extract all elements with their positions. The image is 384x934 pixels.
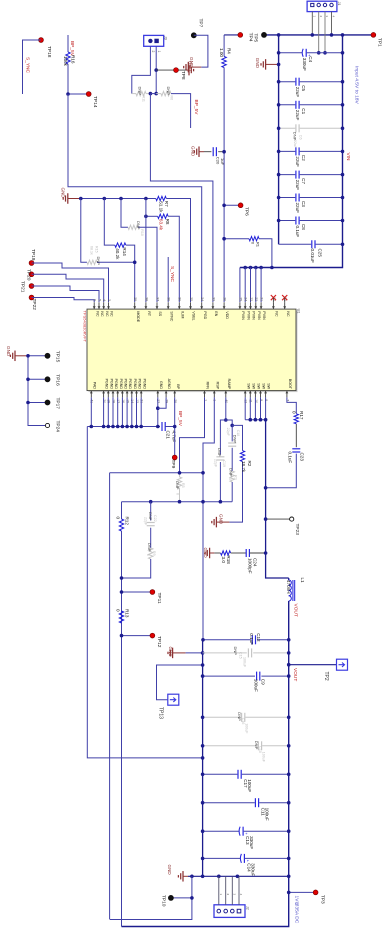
svg-text:100uF: 100uF xyxy=(261,752,265,763)
svg-text:100k: 100k xyxy=(63,56,68,67)
wire VIN top line xyxy=(224,34,240,36)
capacitor C6 xyxy=(279,127,296,129)
test point TP24 xyxy=(45,423,49,427)
resistor R13 xyxy=(119,611,123,623)
svg-text:1: 1 xyxy=(157,51,161,53)
svg-text:0.1uF: 0.1uF xyxy=(287,452,292,464)
wire BOOT pin xyxy=(287,397,296,413)
svg-text:C3: C3 xyxy=(301,201,306,207)
wire PGND 20 to bus xyxy=(103,397,105,426)
svg-text:U1: U1 xyxy=(297,309,301,314)
svg-text:MODE: MODE xyxy=(136,311,140,322)
svg-text:RT: RT xyxy=(147,311,151,317)
svg-text:TP21: TP21 xyxy=(20,281,26,293)
svg-text:0.01uF: 0.01uF xyxy=(310,249,315,263)
capacitor C13 xyxy=(203,830,240,832)
svg-text:1: 1 xyxy=(313,16,317,18)
test point TP5 (red) xyxy=(238,33,243,38)
svg-text:330uF: 330uF xyxy=(250,863,255,876)
svg-text:4: 4 xyxy=(239,894,243,896)
svg-text:21: 21 xyxy=(260,297,264,301)
svg-text:VDD: VDD xyxy=(225,311,229,319)
pin 33 EN xyxy=(212,302,214,309)
svg-text:0: 0 xyxy=(175,493,179,495)
pin 32 NC xyxy=(272,302,274,309)
capacitor C22 (DNP) xyxy=(150,502,152,521)
pin 15 PGND xyxy=(126,391,128,398)
pin 12 SW xyxy=(244,391,246,398)
svg-text:TP3: TP3 xyxy=(319,895,325,904)
ground (TP15 group) xyxy=(15,355,28,357)
pin 11 SW xyxy=(249,391,251,398)
svg-text:100uF: 100uF xyxy=(247,779,252,792)
svg-text:VIN: VIN xyxy=(345,153,351,162)
capacitor C21 xyxy=(161,422,163,431)
svg-text:GND: GND xyxy=(168,647,173,658)
svg-text:23: 23 xyxy=(249,297,253,301)
svg-text:C2: C2 xyxy=(301,155,306,161)
capacitor C14 xyxy=(203,857,241,859)
svg-text:R14: R14 xyxy=(122,247,127,256)
svg-text:330uF: 330uF xyxy=(302,58,307,71)
svg-text:TP20: TP20 xyxy=(26,269,32,281)
svg-text:GND: GND xyxy=(6,346,11,357)
resistor R17 xyxy=(294,414,298,424)
capacitor C18 (DNP) xyxy=(231,425,233,441)
capacitor C20 xyxy=(199,151,204,153)
resistor R2 xyxy=(232,425,242,450)
pin 20 PGND xyxy=(103,391,105,398)
svg-text:C1: C1 xyxy=(301,108,306,114)
svg-text:R8: R8 xyxy=(165,219,170,225)
svg-text:C7: C7 xyxy=(301,178,306,184)
test point TP23 xyxy=(266,518,290,520)
capacitor C11 xyxy=(203,802,255,804)
svg-text:1uF: 1uF xyxy=(220,158,225,165)
svg-text:0: 0 xyxy=(115,517,120,520)
pin 4 NC xyxy=(103,302,105,309)
wire J2 pin 1 xyxy=(218,876,220,905)
svg-text:DNP: DNP xyxy=(233,435,238,444)
pin 13 PGND xyxy=(136,391,138,398)
pin 10 SW xyxy=(254,391,256,398)
capacitor C17 xyxy=(203,773,238,775)
svg-text:SYNC: SYNC xyxy=(169,311,173,321)
svg-text:NC: NC xyxy=(275,311,279,317)
svg-text:TP16: TP16 xyxy=(54,374,60,386)
svg-text:0: 0 xyxy=(228,478,232,480)
wire PGND 18 to bus xyxy=(112,397,114,426)
svg-text:DNP: DNP xyxy=(175,481,180,490)
svg-text:TP19: TP19 xyxy=(30,249,36,261)
wire J1 pin1 xyxy=(311,12,313,35)
wire PGND bus xyxy=(87,426,160,428)
pin 5 NC xyxy=(98,302,100,309)
wire PGND 13 to bus xyxy=(136,397,138,426)
ground (R2) xyxy=(216,521,229,523)
svg-text:PGND: PGND xyxy=(133,379,137,390)
svg-text:30: 30 xyxy=(178,297,182,301)
svg-text:C22: C22 xyxy=(153,515,157,522)
svg-text:0: 0 xyxy=(292,411,297,414)
ground (TP8) xyxy=(186,69,189,71)
svg-text:SW: SW xyxy=(262,383,266,389)
test point TP19 xyxy=(29,261,34,266)
pin 26 VDD xyxy=(223,302,225,309)
svg-text:22uF: 22uF xyxy=(295,203,300,214)
wire VOUT bus xyxy=(122,601,289,927)
svg-text:R11: R11 xyxy=(142,96,146,102)
pin 40 RAMP xyxy=(225,391,227,398)
svg-text:TP15: TP15 xyxy=(54,351,60,363)
test point TP18 xyxy=(39,38,44,43)
resistor R9 (DNP) xyxy=(149,548,153,559)
wire J2 pin 3 xyxy=(231,876,233,905)
pin 24 PVIN xyxy=(244,302,246,309)
test point TP12 xyxy=(122,635,153,637)
svg-text:25: 25 xyxy=(238,297,242,301)
svg-text:PAD: PAD xyxy=(92,382,96,390)
pin 28 BP xyxy=(174,391,176,398)
pin 35 VSEL xyxy=(190,302,192,309)
svg-text:TP14: TP14 xyxy=(92,96,98,108)
svg-text:TP2: TP2 xyxy=(323,672,329,681)
resistor R8 xyxy=(146,215,158,217)
svg-text:TP8: TP8 xyxy=(180,71,186,80)
svg-text:22pF: 22pF xyxy=(214,459,218,468)
svg-text:22pF: 22pF xyxy=(226,428,230,437)
capacitor C8 xyxy=(279,220,296,222)
no-connect X pin 32 xyxy=(271,295,276,300)
test point TP15 xyxy=(28,355,48,357)
svg-text:VOUT: VOUT xyxy=(292,604,298,617)
capacitor C9 xyxy=(203,675,255,677)
svg-text:+: + xyxy=(244,832,249,835)
svg-text:R1: R1 xyxy=(256,242,261,248)
svg-text:NC: NC xyxy=(95,311,99,317)
wire TP22 to NC pin xyxy=(32,298,95,303)
svg-text:C21: C21 xyxy=(166,431,171,440)
pin 30 ILIM xyxy=(178,302,180,309)
svg-text:PGND: PGND xyxy=(142,379,146,390)
svg-text:18.7k: 18.7k xyxy=(241,461,246,473)
svg-text:C19: C19 xyxy=(222,460,226,467)
node GND bus (input) xyxy=(278,35,280,244)
capacitor C24 xyxy=(245,549,247,557)
svg-text:DNP: DNP xyxy=(166,87,171,96)
svg-text:PVIN: PVIN xyxy=(252,311,256,320)
svg-text:C25: C25 xyxy=(317,249,322,258)
wire PGND 19 to bus xyxy=(107,397,109,426)
svg-text:C9: C9 xyxy=(260,679,265,685)
test point TP21 xyxy=(29,284,34,289)
wire J3 pin2 xyxy=(132,46,151,93)
svg-text:0: 0 xyxy=(146,554,150,556)
svg-text:TP9: TP9 xyxy=(170,460,176,469)
svg-text:BP_5V: BP_5V xyxy=(177,411,183,427)
svg-text:VSEL: VSEL xyxy=(192,311,196,320)
wire EN net from J3 xyxy=(150,94,213,302)
svg-text:22uF: 22uF xyxy=(295,110,300,121)
capacitor C3 xyxy=(279,197,296,199)
test point TP8 xyxy=(156,69,187,71)
svg-text:GND: GND xyxy=(159,381,163,389)
svg-text:VOUT: VOUT xyxy=(292,668,298,681)
capacitor C12 xyxy=(203,639,251,641)
svg-text:3.0: 3.0 xyxy=(221,557,226,564)
pin 16 PGND xyxy=(121,391,123,398)
svg-text:R7: R7 xyxy=(164,201,169,207)
svg-text:1000pF: 1000pF xyxy=(247,558,252,574)
svg-text:Input 4.5V to 18V: Input 4.5V to 18V xyxy=(354,66,360,105)
capacitor C7 xyxy=(279,174,296,176)
wire TP7 to ground xyxy=(194,35,208,67)
svg-text:PVIN: PVIN xyxy=(246,311,250,320)
svg-text:36: 36 xyxy=(167,297,171,301)
svg-text:3: 3 xyxy=(107,299,111,301)
svg-text:22uF: 22uF xyxy=(295,180,300,191)
svg-text:PGND: PGND xyxy=(109,379,113,390)
svg-text:TP1: TP1 xyxy=(377,38,383,47)
svg-text:GND: GND xyxy=(61,188,66,199)
svg-text:R9: R9 xyxy=(152,551,156,556)
svg-text:PVIN: PVIN xyxy=(262,311,266,320)
svg-text:TP5: TP5 xyxy=(253,33,259,42)
pin 18 PGND xyxy=(112,391,114,398)
wire PGND 16 to bus xyxy=(121,397,123,426)
node R14 tap xyxy=(103,197,107,201)
test point TP1 xyxy=(371,33,376,38)
test point TP3 xyxy=(289,891,316,893)
wire output GND bus xyxy=(202,640,204,877)
pin 6 NC xyxy=(93,302,95,309)
capacitor C1 xyxy=(279,104,296,106)
test point TP2 wire xyxy=(289,664,337,666)
wire RSP pin xyxy=(203,397,214,639)
svg-text:BP: BP xyxy=(176,384,180,389)
capacitor C10 (DNP) xyxy=(203,745,258,747)
svg-text:0: 0 xyxy=(251,242,256,245)
pin 21 PVIN xyxy=(260,302,262,309)
svg-text:R3: R3 xyxy=(233,475,237,480)
wire TP19 to NC pin xyxy=(32,263,109,302)
connector J2 xyxy=(214,905,245,918)
svg-text:R10: R10 xyxy=(140,229,144,236)
svg-text:BOOT: BOOT xyxy=(288,379,292,390)
svg-text:TP17: TP17 xyxy=(54,398,60,410)
test point TP10 xyxy=(171,897,192,899)
pin 39 MODE xyxy=(134,302,136,309)
wire J2 GND row xyxy=(188,875,289,877)
wire BP pin to TP9 xyxy=(174,397,176,457)
wire J1 pin3 xyxy=(324,12,326,53)
test point TP6 xyxy=(224,204,241,206)
svg-text:DNP: DNP xyxy=(148,512,153,521)
wire J2 pin 4 xyxy=(238,876,240,905)
test point TP13 xyxy=(168,694,179,705)
svg-text:TPS543820RVFT: TPS543820RVFT xyxy=(83,311,88,343)
svg-text:GND: GND xyxy=(218,514,223,525)
svg-text:TP10: TP10 xyxy=(160,895,166,907)
wire J1 pin4 xyxy=(331,12,333,35)
wire J3 pin1 xyxy=(155,46,157,93)
svg-text:4: 4 xyxy=(332,16,336,18)
svg-text:TP22: TP22 xyxy=(31,299,37,311)
wire J2 pin 2 xyxy=(225,876,227,905)
resistor R4 xyxy=(223,35,225,57)
capacitor C23 xyxy=(292,448,300,450)
svg-text:1: 1 xyxy=(219,894,223,896)
svg-text:RAMP: RAMP xyxy=(227,379,231,390)
svg-text:R12: R12 xyxy=(125,517,130,526)
svg-text:+: + xyxy=(245,860,250,863)
wire VDD rail xyxy=(223,68,225,303)
svg-text:R4: R4 xyxy=(227,48,232,54)
pin 8 SW xyxy=(265,391,267,398)
svg-text:PGND: PGND xyxy=(105,379,109,390)
svg-text:R2: R2 xyxy=(247,461,252,467)
svg-text:DNP: DNP xyxy=(233,647,238,656)
svg-text:J2: J2 xyxy=(245,906,249,910)
svg-text:GND: GND xyxy=(255,58,260,69)
pin 22 PVIN xyxy=(255,302,257,309)
resistor R16 xyxy=(67,35,69,52)
test point TP2 xyxy=(337,659,348,670)
pin 21 PGND xyxy=(140,391,142,398)
pin 7 BOOT xyxy=(286,391,288,398)
svg-text:GND: GND xyxy=(187,61,192,72)
inductor L1 xyxy=(288,578,290,580)
pin 36 SYNC xyxy=(167,302,169,309)
ground (input bus) xyxy=(266,63,279,65)
resistor R10 (DNP) xyxy=(121,199,128,228)
svg-text:C8: C8 xyxy=(301,224,306,230)
wire PGND 21 to bus xyxy=(140,397,142,426)
svg-text:GND: GND xyxy=(167,865,172,876)
svg-text:3: 3 xyxy=(325,16,329,18)
wire GND sense line F1 xyxy=(110,472,203,474)
svg-text:26: 26 xyxy=(223,297,227,301)
svg-text:0: 0 xyxy=(115,609,120,612)
node R10 tap xyxy=(119,197,123,201)
capacitor C2 xyxy=(279,150,296,152)
wire PAD 41 to bus xyxy=(90,397,92,426)
svg-text:100uF: 100uF xyxy=(265,808,270,821)
svg-text:SW: SW xyxy=(267,383,271,389)
node R15 tap xyxy=(79,197,83,201)
wire PGND 14 to bus xyxy=(131,397,133,426)
svg-text:DNP: DNP xyxy=(228,468,233,477)
test point TP14 xyxy=(68,93,89,95)
svg-text:PVIN: PVIN xyxy=(257,311,261,320)
pin 38 RT xyxy=(145,302,147,309)
pin 41 PAD xyxy=(90,391,92,398)
svg-text:NC: NC xyxy=(100,311,104,317)
svg-text:EN: EN xyxy=(214,311,218,316)
capacitor C19 (DNP) xyxy=(220,420,225,455)
svg-text:100uF: 100uF xyxy=(243,657,247,668)
svg-text:NC: NC xyxy=(286,311,290,317)
svg-text:2: 2 xyxy=(319,16,323,18)
svg-text:J3: J3 xyxy=(164,36,168,40)
svg-text:22pF: 22pF xyxy=(144,517,148,526)
svg-text:2: 2 xyxy=(226,894,230,896)
resistor R5 (DNP) xyxy=(179,473,181,477)
test point TP16 xyxy=(28,378,48,380)
svg-text:63.4k: 63.4k xyxy=(159,219,164,231)
svg-text:35: 35 xyxy=(189,297,193,301)
svg-text:PGND: PGND xyxy=(119,379,123,390)
test point TP17 xyxy=(28,402,48,404)
resistor R1 xyxy=(224,238,249,240)
test point TP9 xyxy=(172,455,177,460)
svg-text:5: 5 xyxy=(97,299,101,301)
wire RAMP pin xyxy=(225,397,227,420)
svg-text:SW: SW xyxy=(246,383,250,389)
svg-text:TP13: TP13 xyxy=(157,707,163,719)
test point TP7 xyxy=(191,33,196,38)
capacitor C15 (DNP) xyxy=(203,652,247,654)
svg-text:3: 3 xyxy=(233,894,237,896)
wire RFN pin xyxy=(180,397,205,472)
svg-text:TP12: TP12 xyxy=(156,636,162,648)
svg-text:470nH: 470nH xyxy=(286,580,291,594)
svg-text:DNP: DNP xyxy=(147,543,152,552)
svg-text:PGND: PGND xyxy=(124,379,128,390)
svg-text:NC: NC xyxy=(105,311,109,317)
svg-text:J1: J1 xyxy=(337,2,341,6)
svg-text:R13: R13 xyxy=(125,609,130,618)
pin 19 PGND xyxy=(107,391,109,398)
pin 27 GND xyxy=(157,391,159,398)
IC U1 TPS543820RVFT xyxy=(89,311,298,393)
wire TP ground chain xyxy=(28,356,48,426)
wire SYNC stub xyxy=(167,257,169,302)
pin 31 NC xyxy=(284,302,286,309)
svg-text:100uF: 100uF xyxy=(253,679,258,692)
svg-text:0.1uF: 0.1uF xyxy=(295,226,300,238)
svg-text:S_YNC: S_YNC xyxy=(25,57,31,74)
wire SW node xyxy=(266,420,289,578)
wire GND sense drop xyxy=(109,473,111,919)
wire PVIN feed xyxy=(243,266,247,270)
svg-text:GND: GND xyxy=(203,548,208,559)
svg-text:1V@35A DC: 1V@35A DC xyxy=(293,896,299,924)
wire TP10 drop xyxy=(110,876,192,919)
pin 17 PGND xyxy=(117,391,119,398)
svg-text:NC: NC xyxy=(110,311,114,317)
capacitor C25 xyxy=(279,243,312,245)
svg-text:24: 24 xyxy=(244,297,248,301)
capacitor C5 xyxy=(279,81,296,83)
test point TP22 xyxy=(29,295,34,300)
svg-text:68.1k: 68.1k xyxy=(90,246,94,255)
svg-text:R6: R6 xyxy=(170,96,174,101)
wire divider bus F2 xyxy=(122,501,233,503)
svg-text:R16: R16 xyxy=(70,55,75,64)
resistor R12 xyxy=(121,502,123,519)
resistor R11 (DNP) xyxy=(132,93,136,95)
resistor R18 snubber xyxy=(210,552,215,554)
pin 25 PVIN xyxy=(239,302,241,309)
pin 9 SW xyxy=(260,391,262,398)
node VIN bus xyxy=(240,35,343,268)
test point TP4 (black) xyxy=(262,33,267,38)
svg-text:R15: R15 xyxy=(94,246,98,253)
svg-text:SS: SS xyxy=(158,311,162,316)
svg-text:DNP: DNP xyxy=(217,448,222,457)
svg-text:PGD: PGD xyxy=(203,311,207,319)
